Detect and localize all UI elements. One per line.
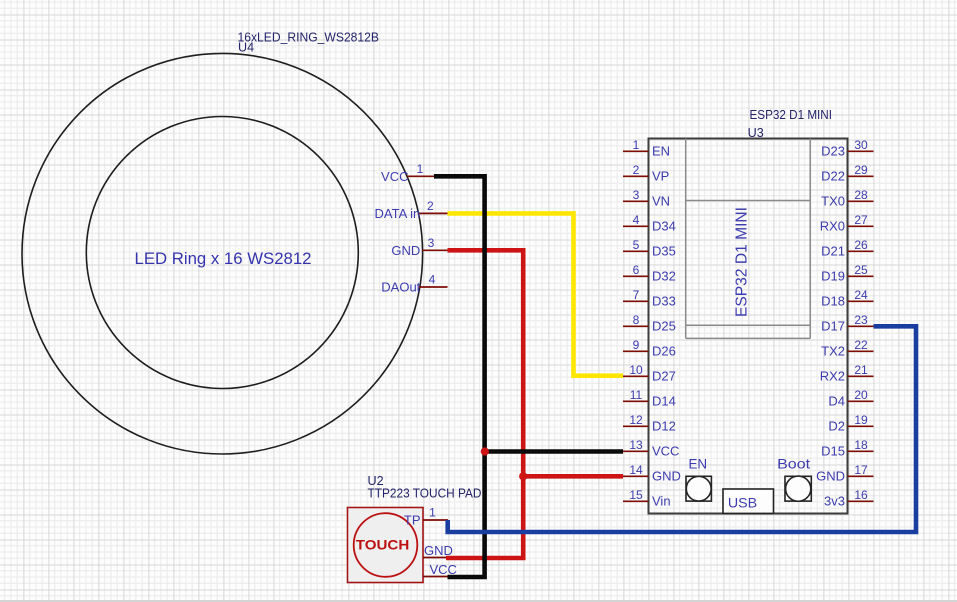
svg-text:25: 25 <box>854 263 868 277</box>
svg-text:TX0: TX0 <box>821 194 845 209</box>
svg-text:DATA in: DATA in <box>375 206 421 221</box>
ESP32 left pin 13 VCC <box>623 438 679 458</box>
svg-text:D2: D2 <box>828 419 845 434</box>
wire black VCC net <box>434 176 485 577</box>
svg-text:27: 27 <box>854 213 868 227</box>
svg-text:7: 7 <box>633 288 640 302</box>
ESP32 left pin 5 D35 <box>623 238 676 258</box>
ESP32 left pin 10 D27 <box>623 363 676 383</box>
svg-text:ESP32 D1 MINI: ESP32 D1 MINI <box>750 108 833 122</box>
svg-text:D12: D12 <box>652 419 676 434</box>
svg-text:D19: D19 <box>821 269 845 284</box>
ESP32 right pin 25 D19 <box>821 263 873 283</box>
wire yellow DATA in to D27 <box>448 213 624 375</box>
svg-text:D4: D4 <box>828 394 845 409</box>
ESP32 EN button <box>686 476 711 501</box>
svg-text:TX2: TX2 <box>821 344 845 359</box>
svg-text:3v3: 3v3 <box>824 494 845 509</box>
ESP32 right pin 30 D23 <box>821 138 873 158</box>
svg-text:VCC: VCC <box>652 444 679 459</box>
svg-text:D14: D14 <box>652 394 676 409</box>
svg-text:USB: USB <box>728 495 757 511</box>
svg-text:LED Ring x 16 WS2812: LED Ring x 16 WS2812 <box>135 249 312 268</box>
ESP32 right pin 24 D18 <box>821 288 873 308</box>
svg-text:4: 4 <box>633 213 640 227</box>
ESP32 left pin 9 D26 <box>623 338 676 358</box>
ESP32 Boot button <box>785 476 811 501</box>
svg-text:20: 20 <box>854 388 868 402</box>
ESP32 U3 body <box>649 139 848 514</box>
svg-text:TOUCH: TOUCH <box>356 537 410 553</box>
svg-text:12: 12 <box>629 413 643 427</box>
ESP32 left pin 7 D33 <box>623 288 676 308</box>
svg-text:17: 17 <box>854 463 868 477</box>
svg-text:D17: D17 <box>821 319 845 334</box>
ESP32 right pin 27 RX0 <box>820 213 874 233</box>
ESP32 right pin 20 D4 <box>828 388 873 408</box>
svg-text:VP: VP <box>652 169 669 184</box>
LED ring U4 outer circle <box>22 53 423 454</box>
svg-text:21: 21 <box>854 363 868 377</box>
svg-text:Boot: Boot <box>777 455 810 471</box>
svg-text:EN: EN <box>688 455 707 471</box>
svg-text:ESP32 D1 MINI: ESP32 D1 MINI <box>734 207 751 317</box>
svg-text:D25: D25 <box>652 319 676 334</box>
svg-text:D15: D15 <box>821 444 845 459</box>
ESP32 left pin 1 EN <box>623 138 670 158</box>
LED ring pin 1 VCC <box>381 162 447 184</box>
svg-text:TP: TP <box>404 513 421 528</box>
svg-text:22: 22 <box>854 338 868 352</box>
svg-text:VN: VN <box>652 194 670 209</box>
wire black branch to ESP32 VCC pin 13 <box>485 449 623 454</box>
touch pad U2 touch circle <box>354 513 418 577</box>
svg-text:16: 16 <box>854 488 868 502</box>
ESP32 right pin 17 GND <box>816 463 873 483</box>
svg-text:29: 29 <box>854 163 868 177</box>
ESP32 left pin 3 VN <box>623 188 670 208</box>
svg-text:30: 30 <box>854 138 868 152</box>
svg-text:VCC: VCC <box>381 169 408 184</box>
ESP32 left pin 2 VP <box>623 163 669 183</box>
svg-text:3: 3 <box>633 188 640 202</box>
svg-text:11: 11 <box>630 388 643 402</box>
wire red GND net <box>446 250 523 558</box>
ESP32 U3 module outline <box>686 139 811 339</box>
svg-text:28: 28 <box>854 188 868 202</box>
svg-text:RX0: RX0 <box>820 219 845 234</box>
svg-text:D23: D23 <box>821 144 845 159</box>
svg-text:4: 4 <box>429 273 436 287</box>
svg-text:D32: D32 <box>652 269 676 284</box>
svg-text:RX2: RX2 <box>820 369 845 384</box>
wire blue TP to D17 <box>448 326 916 532</box>
wire red branch to ESP32 GND pin 14 <box>523 474 623 479</box>
ESP32 right pin 22 TX2 <box>821 338 873 358</box>
svg-text:3: 3 <box>428 236 435 250</box>
svg-text:6: 6 <box>633 263 640 277</box>
svg-text:D21: D21 <box>821 244 845 259</box>
ESP32 left pin 11 D14 <box>623 388 676 408</box>
svg-text:19: 19 <box>854 413 868 427</box>
svg-text:D27: D27 <box>652 369 676 384</box>
svg-text:9: 9 <box>633 338 640 352</box>
svg-text:DAOut: DAOut <box>381 280 420 295</box>
svg-text:TTP223 TOUCH PAD: TTP223 TOUCH PAD <box>368 487 482 501</box>
touch pad U2 body <box>348 508 424 583</box>
svg-text:D18: D18 <box>821 294 845 309</box>
svg-text:2: 2 <box>633 163 640 177</box>
svg-text:1: 1 <box>633 138 640 152</box>
touch pad pin GND <box>423 543 453 558</box>
svg-text:13: 13 <box>629 438 643 452</box>
svg-text:GND: GND <box>652 469 681 484</box>
LED ring pin 2 DATA in <box>375 199 448 221</box>
svg-text:U4: U4 <box>238 41 254 55</box>
svg-text:GND: GND <box>391 243 420 258</box>
LED ring U4 inner circle <box>86 117 358 389</box>
ESP32 USB connector <box>723 489 774 513</box>
svg-text:1: 1 <box>417 162 424 176</box>
ESP32 right pin 23 D17 <box>821 313 873 333</box>
svg-text:16xLED_RING_WS2812B: 16xLED_RING_WS2812B <box>238 31 380 45</box>
svg-text:5: 5 <box>633 238 640 252</box>
svg-text:14: 14 <box>629 463 643 477</box>
svg-text:D33: D33 <box>652 294 676 309</box>
svg-text:D22: D22 <box>821 169 845 184</box>
ESP32 left pin 8 D25 <box>623 313 676 333</box>
svg-text:15: 15 <box>629 488 643 502</box>
svg-text:1: 1 <box>429 506 436 520</box>
svg-text:26: 26 <box>854 238 868 252</box>
svg-text:23: 23 <box>854 313 868 327</box>
svg-text:GND: GND <box>816 469 845 484</box>
LED ring pin 3 GND <box>391 236 447 258</box>
svg-text:10: 10 <box>629 363 643 377</box>
ESP32 right pin 19 D2 <box>828 413 873 433</box>
svg-text:24: 24 <box>854 288 868 302</box>
svg-text:D26: D26 <box>652 344 676 359</box>
ESP32 left pin 15 Vin <box>623 488 671 508</box>
ESP32 right pin 18 D15 <box>821 438 873 458</box>
ESP32 left pin 14 GND <box>623 463 681 483</box>
svg-text:Vin: Vin <box>652 494 671 509</box>
ESP32 right pin 28 TX0 <box>821 188 873 208</box>
svg-text:D35: D35 <box>652 244 676 259</box>
ESP32 left pin 6 D32 <box>623 263 676 283</box>
touch pad pin 1 TP <box>404 506 448 528</box>
ESP32 right pin 26 D21 <box>821 238 873 258</box>
ESP32 right pin 16 3v3 <box>824 488 873 508</box>
ESP32 left pin 12 D12 <box>623 413 676 433</box>
svg-text:8: 8 <box>633 313 640 327</box>
touch pad pin VCC <box>423 562 457 577</box>
ESP32 right pin 21 RX2 <box>820 363 874 383</box>
svg-text:EN: EN <box>652 144 670 159</box>
LED ring pin 4 DAOut <box>381 273 447 295</box>
ESP32 left pin 4 D34 <box>623 213 676 233</box>
svg-text:D34: D34 <box>652 219 676 234</box>
junction VCC net <box>481 447 489 455</box>
ESP32 right pin 29 D22 <box>821 163 873 183</box>
svg-text:2: 2 <box>427 199 434 213</box>
junction GND net <box>519 472 527 480</box>
svg-text:18: 18 <box>854 438 868 452</box>
